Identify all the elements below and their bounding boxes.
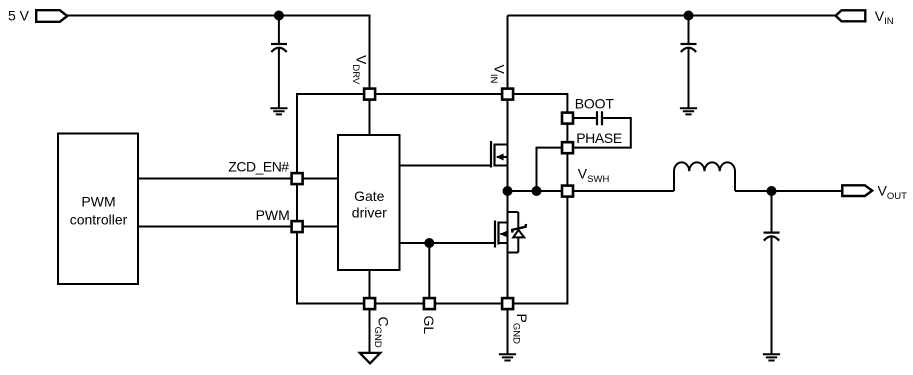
ground G2 <box>680 108 697 114</box>
IC U1 outline <box>297 94 567 304</box>
wire capacitor C1 to ground <box>278 48 280 109</box>
capacitor C3 (bootstrap) <box>597 111 602 125</box>
ground G1 <box>270 108 287 114</box>
wire bootstrap loop to PHASE <box>567 118 630 148</box>
capacitor C4 (output) <box>764 232 780 234</box>
net flag VIN <box>836 10 866 21</box>
junction phase tap <box>532 186 542 196</box>
pin VDRV <box>364 89 375 100</box>
ground PGND <box>499 304 516 361</box>
pin PHASE <box>562 142 573 153</box>
transistor Q1 (high-side NMOS) <box>491 141 508 168</box>
pin VSWH <box>562 186 573 197</box>
wire PWM <box>138 226 338 228</box>
junction 5V cap <box>274 11 284 21</box>
wire VIN vertical / switch leg / PGND leg <box>507 16 509 354</box>
pin VIN <box>502 89 513 100</box>
junction output cap <box>767 186 777 196</box>
pin ZCD_EN# <box>292 173 303 184</box>
net flag VOUT <box>842 185 872 196</box>
wire capacitor C2 branch top <box>688 16 690 44</box>
wire ZCD_EN# <box>138 178 338 180</box>
wire VDRV internal <box>369 94 371 135</box>
wire switch node <box>508 190 675 192</box>
net flag 5V <box>36 10 67 22</box>
wire 5V rail <box>68 16 370 95</box>
junction VIN cap <box>684 11 694 21</box>
svg-text:GL: GL <box>421 316 437 335</box>
svg-text:controller: controller <box>70 211 128 227</box>
svg-text:PWM: PWM <box>81 194 115 210</box>
wire capacitor C4 branch <box>771 191 773 232</box>
pin PWM <box>292 221 303 232</box>
transistor Q2 (low-side NMOS) <box>495 221 508 248</box>
wire VOUT <box>735 190 842 192</box>
pin BOOT <box>562 113 573 124</box>
wire gate low <box>400 242 495 244</box>
svg-text:5 V: 5 V <box>8 7 30 23</box>
wire capacitor C4 to ground <box>771 236 773 354</box>
wire capacitor C1 branch top <box>278 16 280 44</box>
wire Q2 drain to diode <box>508 211 519 213</box>
pin CGND <box>364 298 375 309</box>
wire phase tap <box>537 148 568 191</box>
wire CGND <box>369 270 371 352</box>
capacitor C2 <box>681 43 697 45</box>
ground G4 <box>763 354 780 360</box>
wire Q2 source to diode <box>508 252 519 254</box>
wire BOOT to bootstrap capacitor <box>567 117 596 119</box>
gate driver box <box>338 135 400 270</box>
inductor L1 <box>674 162 735 191</box>
junction switch node <box>503 186 513 196</box>
svg-text:BOOT: BOOT <box>575 95 615 111</box>
wire GL drop <box>428 243 430 304</box>
wire capacitor C2 to ground <box>688 48 690 109</box>
capacitor C1 <box>271 43 287 45</box>
svg-text:driver: driver <box>352 205 387 221</box>
wire gate high <box>400 165 492 167</box>
svg-text:PHASE: PHASE <box>576 130 622 146</box>
signal ground (CGND) <box>360 353 380 364</box>
PWM controller box <box>58 134 138 285</box>
svg-text:Gate: Gate <box>354 188 385 204</box>
svg-text:ZCD_EN#: ZCD_EN# <box>228 158 289 174</box>
wire VIN rail <box>508 15 836 17</box>
pin PGND <box>502 298 513 309</box>
body diode D1 <box>512 212 526 253</box>
svg-text:PWM: PWM <box>256 207 290 223</box>
pin GL <box>424 298 435 309</box>
junction GL tap <box>424 238 434 248</box>
